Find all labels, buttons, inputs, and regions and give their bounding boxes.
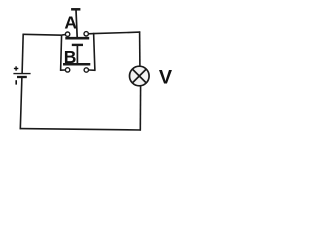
wire left vertical upper (top to battery) xyxy=(22,34,23,74)
label A xyxy=(64,13,77,33)
push-button A: right contact circle xyxy=(84,32,88,36)
lamp V: cross stroke 1 xyxy=(132,69,146,83)
push-button A: bridge bar xyxy=(65,37,89,40)
wire bottom horizontal xyxy=(20,129,142,130)
wire branch A right stub xyxy=(88,33,94,35)
push-button A (normally closed): left contact circle xyxy=(65,32,69,36)
wire top-right horizontal xyxy=(94,32,141,34)
wire parallel-block left vertical xyxy=(61,35,62,71)
battery cell: long positive plate xyxy=(13,73,30,75)
wire top-left horizontal xyxy=(23,33,63,36)
push-button B: actuator stem xyxy=(76,46,78,63)
wire left vertical lower (battery to bottom) xyxy=(20,77,22,129)
wire branch B left stub xyxy=(60,69,65,71)
label V xyxy=(159,66,173,88)
lamp V: bulb circle xyxy=(130,66,150,86)
svg-text:B: B xyxy=(64,47,77,67)
push-button B (normally open): left contact circle xyxy=(65,68,69,72)
battery cell: short negative plate xyxy=(17,76,27,78)
svg-text:A: A xyxy=(64,13,77,33)
wire right vertical lower (lamp to bottom) xyxy=(139,86,141,131)
battery plus polarity label xyxy=(14,66,18,70)
push-button A: actuator cap xyxy=(71,8,80,11)
wire branch A left stub xyxy=(62,34,65,36)
push-button B: bridge bar xyxy=(63,63,90,66)
push-button B: right contact circle xyxy=(84,68,88,72)
wire branch B right stub xyxy=(89,69,96,71)
wire right vertical upper (to lamp) xyxy=(139,31,141,65)
push-button B: actuator cap xyxy=(72,44,83,46)
wire parallel-block right vertical xyxy=(94,33,95,71)
label B xyxy=(64,47,77,67)
lamp V: cross stroke 2 xyxy=(132,69,146,83)
push-button A: actuator stem xyxy=(76,10,77,38)
battery minus polarity tick xyxy=(15,80,17,84)
svg-text:V: V xyxy=(159,66,173,88)
